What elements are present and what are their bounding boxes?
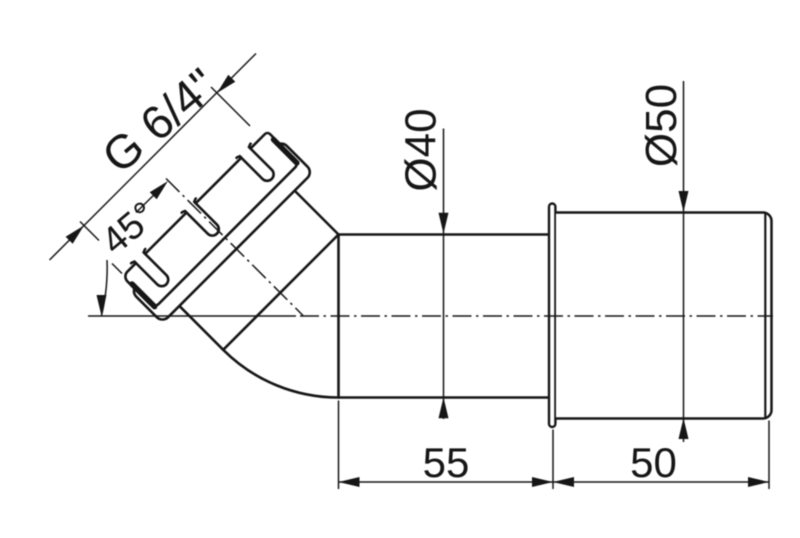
arrowheads (66, 75, 769, 487)
Ø50 bottom arrow (up) (679, 418, 689, 439)
label 45° (94, 194, 165, 263)
bottom dimension line 50 (553, 481, 769, 483)
bottom dimension extension lines (338, 401, 340, 490)
45 deg angle arc (102, 260, 108, 316)
slot 1 (134, 252, 171, 289)
extension tick below 45 text (112, 264, 122, 274)
horizontal centerline: solid left part (88, 315, 296, 317)
Ø40 top arrow (down) (439, 213, 449, 234)
wire: vertical joint line bend/straight pipe (337, 235, 340, 398)
bottom dimension line 55 (339, 481, 554, 483)
extension tick at upper arrow (211, 87, 250, 126)
svg-text:55: 55 (423, 439, 470, 486)
label G 6/4" (92, 58, 227, 183)
50 left arrow (553, 477, 574, 487)
slot 3 (240, 147, 277, 184)
wire: miter joint line between cone and bend (223, 235, 338, 350)
diagonal centerline dash-dot (166, 179, 303, 316)
flange of 50mm socket (549, 204, 555, 428)
wire: Ø40 pipe top edge (339, 233, 550, 236)
45 arc bottom arrow (97, 295, 107, 316)
svg-text:Ø40: Ø40 (397, 108, 446, 191)
G 6/4 dimension line (50, 54, 257, 261)
label Ø50 (637, 84, 686, 167)
svg-text:50: 50 (630, 439, 677, 486)
50mm socket pipe body (556, 213, 772, 419)
wire: elbow bend outer silhouette + pipe bottom edge (180, 307, 549, 398)
Ø40 dimension vertical line (443, 129, 445, 420)
45 deg leader line (136, 187, 162, 213)
wire: cone top silhouette (293, 189, 339, 235)
chamfer band on top-right edge (274, 140, 297, 163)
50 right arrow (748, 477, 769, 487)
Ø40 bottom arrow (up) (439, 397, 449, 418)
label Ø40 (397, 108, 446, 191)
svg-text:G 6/4": G 6/4" (92, 58, 227, 183)
chamfer band on bottom-left edge (132, 284, 155, 307)
Ø50 dimension vertical line (683, 81, 685, 442)
Ø50 top arrow (down) (679, 191, 689, 212)
55 left arrow (339, 477, 360, 487)
55 right arrow (532, 477, 553, 487)
G-dim lower arrow (points up-right, tip at tick) (66, 226, 84, 244)
slot 2 (185, 202, 222, 239)
svg-text:Ø50: Ø50 (637, 84, 686, 167)
socket end inner line (764, 215, 766, 417)
nut G6/4 body (120, 129, 299, 308)
45 leader arrow (150, 181, 168, 199)
horizontal centerline dash-dot (300, 315, 773, 317)
G-dim upper arrow (points down-left, tip at tick) (217, 75, 235, 93)
thin line work: centerlines and dimensions (50, 54, 774, 490)
extension tick at lower arrow (80, 222, 99, 241)
collar behind nut (131, 140, 313, 322)
